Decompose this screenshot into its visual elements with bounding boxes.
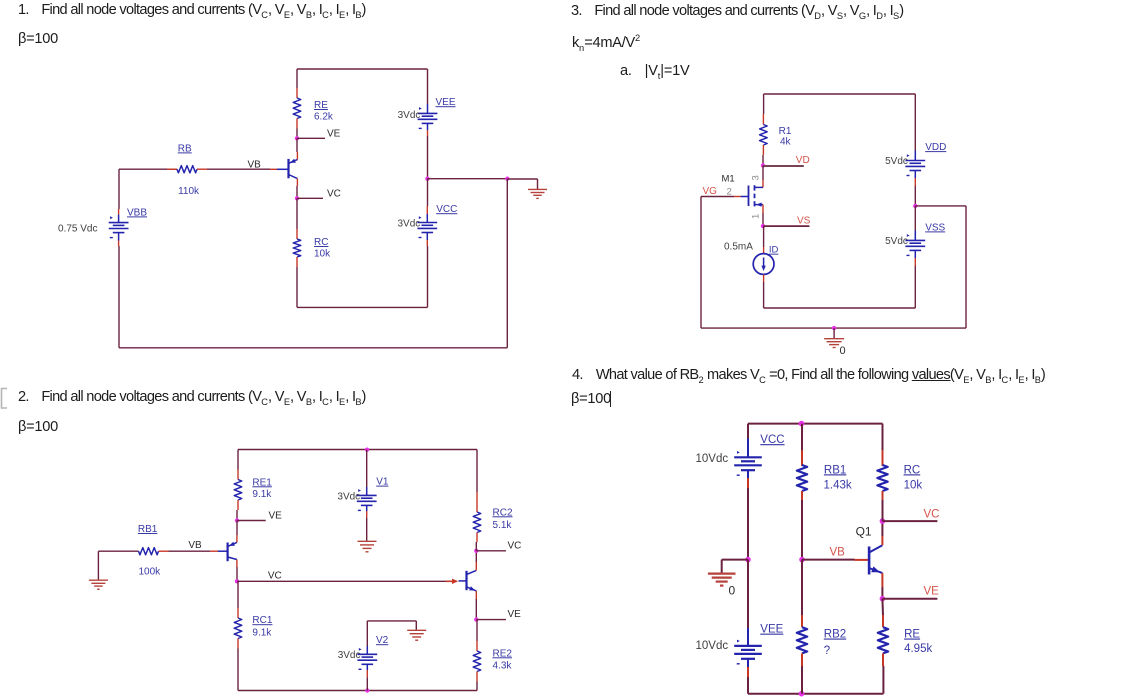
wire RB1 left	[98, 550, 138, 552]
svg-text:0: 0	[729, 584, 736, 598]
battery VEE4	[734, 640, 762, 664]
node VDD-VSS junction	[913, 204, 917, 208]
wire VEE bottom	[427, 123, 429, 178]
resistor RB1-4 top pin	[801, 424, 803, 466]
resistor RB1 label	[138, 524, 161, 578]
svg-text:RB: RB	[178, 143, 192, 154]
wire ground stub C3	[833, 328, 835, 338]
resistor RB1-4	[797, 465, 807, 491]
resistor RB	[177, 166, 197, 173]
heading problem 2	[18, 389, 366, 407]
svg-text:RC2: RC2	[493, 507, 513, 518]
resistor RE1	[234, 480, 242, 501]
resistor RB label	[178, 143, 200, 197]
wire VE stub	[297, 137, 325, 139]
battery VBB	[109, 216, 129, 237]
wire VC long	[237, 580, 446, 582]
node C4 ground junction	[745, 557, 751, 563]
wire VC red segment	[446, 580, 453, 582]
wire VDD bottom	[914, 171, 916, 206]
svg-text:2: 2	[727, 186, 732, 197]
battery VEE value	[398, 110, 421, 121]
resistor RE4 bottom pin	[882, 653, 884, 666]
battery VDD value	[885, 156, 908, 167]
transistor Q2L base lead	[218, 550, 228, 552]
wire VE to Q emitter	[296, 138, 298, 159]
svg-text:V1: V1	[376, 477, 389, 488]
resistor RE2 top pin	[476, 620, 478, 651]
node VE label C4	[924, 586, 940, 598]
wire VS stub	[763, 225, 809, 227]
wire VD to M1 drain	[762, 166, 764, 188]
wire C4 bottom rail	[748, 693, 883, 695]
node VE junction C2R	[474, 617, 478, 621]
node VC junction	[295, 196, 299, 200]
svg-text:4k: 4k	[780, 137, 792, 148]
svg-text:VCC: VCC	[760, 434, 784, 446]
ground 0 label C3	[840, 345, 846, 357]
svg-text:R1: R1	[779, 126, 792, 137]
resistor RC1 top pin	[237, 581, 239, 618]
wire VG	[701, 197, 734, 329]
svg-text:VD: VD	[796, 155, 810, 166]
wire VCC bottom	[426, 233, 428, 308]
wire VCC4 top pin	[747, 439, 749, 458]
resistor RE	[293, 98, 301, 119]
svg-text:VC: VC	[924, 508, 940, 520]
resistor RE1 top pin	[237, 470, 239, 480]
resistor RE2 label	[493, 648, 513, 671]
resistor R1 top pin	[762, 114, 764, 125]
resistor RC4 bottom pin	[882, 491, 884, 500]
wire R1 to node VD	[762, 155, 764, 166]
svg-text:VCC: VCC	[436, 204, 457, 215]
gray bracket artifact	[0, 387, 12, 411]
wire M1 source to VS	[762, 205, 764, 227]
wire RB to Q base	[207, 168, 270, 170]
resistor RE label	[314, 100, 334, 123]
wire VSS top	[914, 206, 916, 241]
wire VBB bottom	[118, 233, 120, 348]
wire VC stub C2R	[476, 550, 506, 552]
resistor RC2 bottom pin	[476, 533, 478, 543]
resistor RB2 bottom pin	[801, 653, 803, 666]
a. |Vt|=1V line	[620, 63, 689, 81]
svg-text:V2: V2	[376, 635, 389, 646]
battery VSS	[905, 234, 925, 255]
transistor Q2L collector diagonal	[228, 557, 237, 560]
transistor Q2R bar	[465, 571, 467, 590]
ground V1	[358, 541, 377, 552]
wire RE1 to node VE	[236, 510, 238, 521]
battery VEE	[418, 107, 438, 128]
transistor Q1-4 collector diagonal	[869, 545, 882, 552]
resistor RB left pin	[167, 168, 177, 170]
svg-text:VEE: VEE	[760, 624, 783, 636]
battery V2	[357, 648, 377, 669]
node C4 bottom junction	[799, 691, 805, 697]
wire C3 top rail	[764, 94, 916, 151]
node VC junction C2R	[474, 549, 478, 553]
wire C2 right top	[476, 450, 478, 493]
resistor RE4 label	[904, 629, 932, 655]
resistor RC top pin	[296, 229, 298, 239]
heading problem 4	[572, 367, 1045, 385]
battery VCC	[417, 216, 437, 237]
svg-text:VC: VC	[508, 541, 522, 552]
svg-text:?: ?	[824, 645, 830, 657]
ground C2 left	[89, 580, 108, 589]
svg-text:VDD: VDD	[925, 142, 946, 153]
svg-text:VC: VC	[268, 571, 282, 582]
node VD label	[796, 155, 810, 166]
node VS junction	[761, 224, 765, 228]
beta line problem 2	[18, 419, 58, 435]
wire V2 upper lead	[366, 621, 368, 654]
transistor Q2L base pin	[210, 550, 218, 552]
svg-text:110k: 110k	[178, 186, 200, 197]
svg-text:RB2: RB2	[824, 629, 846, 641]
wire V1 bottom	[366, 505, 368, 540]
mosfet M1 source lead	[755, 203, 764, 207]
node VC junction C4	[880, 518, 886, 524]
heading problem 3	[571, 3, 903, 21]
svg-text:10Vdc: 10Vdc	[696, 453, 729, 465]
battery VCC label	[436, 204, 457, 215]
svg-text:0.75 Vdc: 0.75 Vdc	[58, 223, 97, 234]
node VC label C2R	[508, 541, 522, 552]
battery VCC value	[398, 219, 421, 230]
wire RE4 to bottom rail	[882, 666, 884, 694]
svg-text:0.5mA: 0.5mA	[724, 242, 753, 253]
wire C1 outer bottom rail	[119, 347, 507, 349]
node ground junction C3	[832, 326, 836, 330]
resistor R1 label	[779, 126, 792, 148]
wire C4 top rail	[748, 424, 883, 439]
mosfet M1 gate lead	[741, 196, 749, 198]
svg-text:9.1k: 9.1k	[252, 628, 272, 639]
wire ID to bottom	[763, 274, 765, 308]
mosfet M1 label	[722, 174, 735, 185]
wire VC to RC	[296, 198, 298, 229]
wire VSS bottom	[914, 250, 916, 308]
resistor RE top pin	[296, 88, 298, 98]
wire Q collector to node VC	[296, 179, 298, 199]
battery VSS label	[925, 222, 945, 233]
wire VCC4 bottom	[747, 470, 749, 559]
wire Q2R emitter to VE node	[475, 591, 477, 620]
wire VEE4 bottom	[747, 659, 749, 694]
wire RB1-4 to VB	[801, 500, 803, 560]
wire C3 inner bottom rail	[764, 307, 916, 309]
svg-text:RE: RE	[904, 629, 920, 641]
mosfet M1 drain lead	[755, 186, 764, 188]
resistor RE4	[878, 627, 888, 653]
resistor RC	[293, 239, 301, 257]
ground C4	[708, 574, 736, 586]
current source ID arrow	[761, 258, 765, 272]
beta line problem 4 with caret	[571, 391, 611, 407]
svg-text:5Vdc: 5Vdc	[885, 156, 908, 167]
transistor Q1-4 base pin	[855, 559, 870, 561]
svg-text:3Vdc: 3Vdc	[398, 110, 421, 121]
svg-text:RE2: RE2	[493, 648, 513, 659]
node VC junction C2	[235, 579, 239, 583]
wire VB C4	[802, 559, 855, 561]
wire VBB top	[118, 169, 120, 222]
resistor RC1 label	[252, 615, 272, 638]
svg-text:VE: VE	[327, 129, 341, 140]
transistor Q1 emitter diagonal	[289, 159, 298, 164]
svg-text:VB: VB	[248, 160, 262, 171]
resistor RE4 top pin	[881, 599, 884, 628]
svg-text:VB: VB	[830, 546, 846, 558]
battery V2 label	[376, 635, 389, 646]
wire mid rail to ground branch	[428, 178, 508, 180]
battery VDD label	[925, 142, 946, 153]
wire VEE4 top	[747, 560, 749, 646]
battery VEE label	[436, 97, 456, 108]
node VC label	[327, 189, 341, 200]
resistor RB1-4 bottom pin	[801, 491, 803, 500]
transistor Q2R emitter diagonal	[467, 586, 477, 591]
wire VD stub	[763, 165, 804, 167]
svg-text:1.43k: 1.43k	[824, 479, 852, 491]
wire right outer vertical	[506, 179, 508, 348]
text caret	[610, 391, 611, 407]
mosfet M1 gate bar	[748, 186, 750, 207]
svg-text:RE: RE	[314, 100, 328, 111]
wire Q1-4 collector to VC	[881, 521, 883, 545]
svg-text:VE: VE	[924, 586, 940, 598]
battery VDD	[905, 154, 925, 175]
wire mid to outer right	[915, 206, 966, 328]
wire RC4 to VC node	[882, 500, 884, 521]
resistor R1 bottom pin	[762, 145, 764, 155]
wire RE to node VE	[296, 129, 298, 139]
mosfet M1 pin3 number	[750, 175, 761, 180]
resistor RB2 top pin	[801, 560, 803, 628]
resistor RC bottom pin	[296, 257, 298, 267]
transistor Q1 base lead	[277, 168, 289, 170]
battery VCC4 value	[696, 453, 729, 465]
kn line problem 3	[572, 33, 640, 53]
resistor RB1-4 label	[824, 464, 852, 491]
transistor Q1 bar	[287, 159, 289, 178]
current source value	[724, 242, 753, 253]
wire C1 top rail	[297, 69, 428, 104]
wire Q2L collector to VC	[236, 560, 238, 582]
node C2 bottom junction	[365, 688, 369, 692]
wire C2 bottom rail	[238, 690, 477, 692]
wire VC stub C4	[882, 520, 937, 522]
transistor Q2L bar	[227, 543, 229, 562]
transistor Q1 base pin	[270, 168, 277, 170]
wire C1 inner bottom rail	[297, 306, 428, 308]
ground C3	[824, 339, 844, 348]
svg-text:Q1: Q1	[856, 525, 872, 539]
svg-text:3Vdc: 3Vdc	[398, 219, 421, 230]
resistor RE2	[473, 651, 481, 672]
transistor Q2R collector diagonal	[467, 570, 477, 574]
resistor RE2 bottom pin	[476, 672, 478, 682]
svg-text:1: 1	[750, 214, 761, 219]
svg-text:VG: VG	[703, 186, 718, 197]
transistor Q2L emitter diagonal	[228, 542, 237, 547]
ground V2	[407, 630, 426, 640]
svg-text:4.95k: 4.95k	[904, 643, 932, 655]
node VC label C2	[268, 571, 282, 582]
svg-text:ID: ID	[769, 245, 779, 256]
wire V2 top hook	[367, 621, 416, 630]
wire VDD top pin	[914, 151, 916, 161]
resistor RE1 label	[252, 477, 272, 500]
svg-text:4.3k: 4.3k	[493, 661, 513, 672]
battery V1 label	[376, 477, 389, 488]
node VD junction	[761, 163, 765, 167]
ground C1	[528, 189, 547, 198]
wire RE2 to bottom rail	[476, 682, 478, 691]
node right branch junction	[505, 177, 509, 181]
svg-text:10k: 10k	[314, 249, 331, 260]
resistor RC1 bottom pin	[237, 639, 239, 649]
current source ID label	[769, 245, 779, 256]
wire RC2 to VC node	[475, 542, 477, 551]
transistor Q2R base lead	[459, 580, 467, 582]
wire VB	[119, 168, 177, 170]
wire C2 top rail	[238, 450, 477, 470]
battery VBB label	[127, 207, 147, 218]
resistor RC2 label	[493, 507, 513, 531]
svg-text:VC: VC	[327, 189, 341, 200]
wire VE stub C2L	[237, 520, 266, 522]
node VB label C4	[830, 546, 846, 558]
node C4 top junction	[799, 421, 805, 427]
node VE junction C2L	[235, 518, 239, 522]
svg-text:10k: 10k	[904, 479, 923, 491]
battery VEE4 value	[696, 640, 729, 652]
svg-text:3: 3	[750, 175, 761, 180]
svg-text:RC: RC	[904, 464, 921, 476]
mosfet M1 gate pin	[734, 196, 741, 198]
resistor RC label	[314, 237, 331, 260]
svg-text:100k: 100k	[139, 567, 162, 578]
svg-text:VBB: VBB	[127, 207, 147, 218]
node VS label	[797, 215, 811, 226]
wire Q1-4 emitter to VE	[881, 573, 883, 599]
pin arrow Q2R base	[452, 579, 458, 584]
node VB junction C4	[799, 557, 805, 563]
svg-text:9.1k: 9.1k	[252, 489, 272, 500]
svg-text:VE: VE	[508, 609, 522, 620]
wire RB2 to bottom rail	[801, 666, 803, 694]
svg-text:RC1: RC1	[252, 615, 272, 626]
wire VE to Q2L emitter	[236, 521, 238, 543]
resistor RC4 label	[904, 464, 923, 491]
wire C3 outer bottom rail	[701, 327, 966, 329]
battery V2 value	[338, 650, 361, 661]
wire VC stub	[297, 197, 323, 199]
node VE label	[327, 129, 341, 140]
mosfet M1 pin1 number	[750, 214, 761, 219]
svg-text:RB1: RB1	[824, 464, 846, 476]
node VC label C4	[924, 508, 940, 520]
svg-text:RE1: RE1	[252, 477, 272, 488]
resistor RB1 right pin	[159, 550, 169, 552]
battery VCC4	[734, 451, 762, 475]
node VB label	[248, 160, 262, 171]
resistor RC2 top pin	[476, 492, 478, 512]
resistor RC1	[234, 618, 242, 639]
svg-text:5Vdc: 5Vdc	[885, 236, 908, 247]
svg-text:M1: M1	[722, 174, 735, 185]
resistor RB1	[139, 548, 159, 555]
resistor RC4 top pin	[882, 424, 884, 466]
beta line problem 1	[18, 31, 58, 47]
node VE junction C4	[880, 596, 886, 602]
svg-text:RC: RC	[314, 237, 328, 248]
svg-text:VSS: VSS	[925, 222, 945, 233]
transistor Q1-4 label	[856, 525, 872, 539]
wire RC to bottom rail	[296, 267, 298, 307]
wire RB1 to Q2L base	[169, 550, 211, 552]
svg-text:6.2k: 6.2k	[314, 112, 334, 123]
wire V1 top	[366, 450, 368, 496]
node VE label C2L	[269, 511, 283, 522]
node VB label C2	[188, 540, 202, 551]
svg-text:10Vdc: 10Vdc	[696, 640, 729, 652]
node VEE-VCC junction	[425, 177, 429, 181]
wire V2 bottom	[366, 664, 368, 690]
node VG label	[703, 186, 718, 197]
wire VCC top	[426, 179, 428, 223]
svg-text:3Vdc: 3Vdc	[337, 492, 360, 503]
battery VCC4 label	[760, 434, 784, 446]
resistor RE bottom pin	[296, 119, 298, 129]
wire VEE top pin	[427, 104, 429, 113]
mosfet M1 channel	[754, 185, 756, 206]
svg-text:VS: VS	[797, 215, 811, 226]
svg-text:VB: VB	[188, 540, 202, 551]
transistor Q1-4 bar	[868, 547, 871, 575]
mosfet M1 pin2 number	[727, 186, 732, 197]
battery V1	[357, 489, 377, 510]
wire C2 left ground drop	[97, 551, 99, 580]
svg-text:3Vdc: 3Vdc	[338, 650, 361, 661]
wire VE stub C4	[882, 598, 937, 600]
transistor Q1-4 emitter diagonal	[869, 566, 882, 573]
wire RC1 to bottom rail	[237, 649, 239, 691]
resistor RC2	[473, 512, 481, 533]
svg-text:RB1: RB1	[138, 524, 158, 535]
battery VBB value	[58, 223, 97, 234]
svg-text:5.1k: 5.1k	[493, 520, 513, 531]
wire Q2R collector to VC node	[475, 551, 477, 571]
battery VSS value	[885, 236, 908, 247]
resistor RC4	[877, 465, 887, 491]
wire ground hook C4	[722, 560, 748, 574]
heading problem 1	[18, 2, 366, 20]
battery VEE4 label	[760, 624, 783, 636]
transistor Q1 collector diagonal	[289, 175, 298, 179]
resistor RB2 label	[824, 629, 846, 658]
resistor RB right pin	[197, 168, 207, 170]
node VE label C2R	[508, 609, 522, 620]
wire ground stub C1	[507, 179, 537, 189]
ground 0 label C4	[729, 584, 736, 598]
svg-text:0: 0	[840, 345, 846, 357]
current source ID circle	[753, 254, 774, 275]
